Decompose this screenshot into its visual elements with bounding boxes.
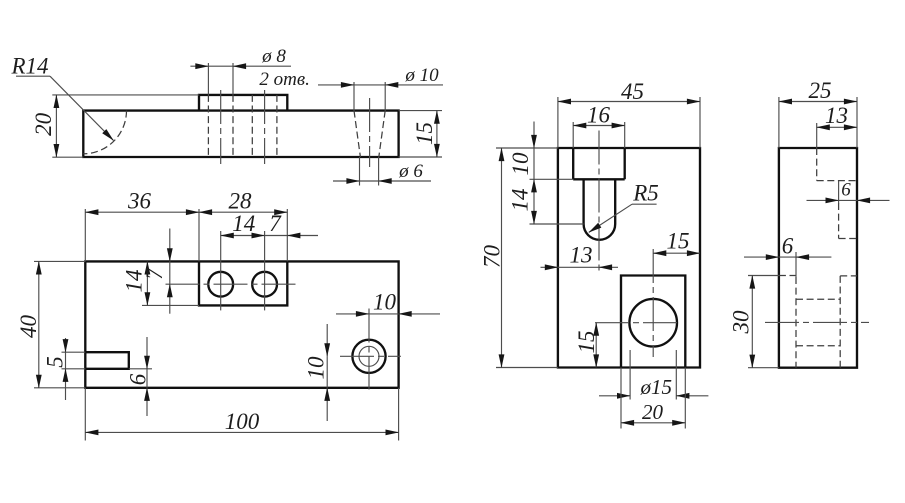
dimension 6 lower: extension line: [795, 252, 797, 277]
dimension 6 upper: lines and arrows: [807, 199, 839, 201]
dimension 13: middle segment: [558, 266, 599, 268]
dimension 70: dimension line: [501, 148, 503, 368]
dimension 15: dimension line: [436, 111, 438, 157]
part 2 front view: slot: [573, 148, 625, 224]
dimension 20: dimension line: [621, 422, 685, 424]
hidden lines: hole Ø15 top: [796, 298, 840, 300]
R14 leader: [16, 75, 50, 77]
part 1 side view: boss outline: [199, 95, 287, 111]
countersunk hole inner circle Ø6: [359, 346, 379, 366]
hidden lines: hole Ø15 bottom: [796, 345, 840, 347]
dimension 36: dimension line: [85, 211, 199, 213]
centerline hole 2 vertical: [264, 231, 266, 310]
part 2 front view: block outline: [558, 148, 700, 368]
dimension 20: dimension line: [55, 95, 57, 157]
centerline hole horizontal: [595, 322, 681, 324]
svg-text:14: 14: [508, 189, 533, 212]
svg-text:R5: R5: [632, 181, 659, 206]
svg-text:7: 7: [142, 267, 167, 280]
centerline countersunk hole: [369, 98, 371, 167]
dimension 100: dimension line: [85, 431, 398, 433]
dimension 40: extension lines: [34, 261, 85, 387]
hidden lines: boss top edges: [779, 275, 857, 277]
svg-text:36: 36: [127, 189, 152, 214]
svg-text:15: 15: [574, 331, 599, 354]
dimension 6 lower: lines and arrows: [744, 256, 779, 258]
dimension Ø8: extension lines: [208, 63, 233, 95]
svg-text:ø 6: ø 6: [398, 161, 423, 182]
dimension Ø8: arrow tails: [190, 65, 208, 67]
hole 2 circle Ø8: [252, 272, 277, 297]
svg-text:15: 15: [667, 229, 690, 254]
dimension 6: extension line: [129, 368, 152, 370]
dimension Ø10: arrow tails: [318, 84, 354, 86]
dimension Ø6: extension lines: [360, 157, 379, 186]
svg-text:ø 8: ø 8: [261, 46, 286, 67]
dimension 10 horizontal: middle segment: [369, 313, 399, 315]
dimension 14 horizontal: dimension line: [221, 235, 265, 237]
dimension 6 upper: extension line: [838, 181, 840, 204]
dimension 45: dimension line: [558, 101, 700, 103]
R14 hidden arc: [83, 111, 126, 154]
centerline countersunk horizontal: [340, 355, 401, 357]
hidden lines: slot upper: [817, 148, 857, 181]
svg-text:13: 13: [825, 103, 848, 128]
svg-text:40: 40: [16, 315, 41, 339]
dimension 28: dimension line: [199, 211, 287, 213]
dimension 15: extension lines: [399, 111, 442, 157]
R5 leader: [632, 203, 657, 205]
dimension 14 vertical: dimension line: [533, 179, 535, 224]
svg-text:10: 10: [508, 152, 533, 176]
dimension 7 horizontal: line and tail: [265, 235, 288, 237]
dimension 16: extension lines: [573, 122, 625, 148]
dimension Ø6: arrow tails: [333, 180, 360, 182]
svg-text:25: 25: [809, 78, 832, 103]
centerline hole vertical: [652, 249, 654, 357]
dimension Ø15: arrow tails: [599, 395, 630, 397]
dimension 10 vertical: middle segment: [533, 148, 535, 179]
part 2 front view: slot arc R5: [584, 224, 616, 240]
centerline countersunk vertical: [368, 309, 370, 390]
svg-text:28: 28: [229, 189, 253, 214]
dimension Ø15: extension lines: [630, 350, 676, 400]
centerline hole 1 vertical: [220, 231, 222, 310]
dimension 36/28: extension lines: [85, 209, 287, 261]
dimension 7 vertical: middle segment: [169, 261, 171, 284]
dimension 13: extension line: [816, 123, 818, 148]
hidden lines: countersunk hole Ø10/Ø6: [354, 111, 385, 157]
svg-text:30: 30: [729, 310, 754, 335]
dimension 45: extension lines: [558, 97, 700, 148]
svg-text:2 отв.: 2 отв.: [259, 69, 309, 90]
centerline holes horizontal: [166, 283, 297, 285]
dimension 25: dimension line: [779, 101, 857, 103]
svg-text:7: 7: [269, 211, 282, 236]
dimension 14 vertical: extension line: [142, 304, 199, 306]
part 1 plan view: notch: [85, 352, 129, 369]
svg-text:45: 45: [621, 79, 644, 104]
svg-text:ø15: ø15: [640, 375, 673, 399]
dimension 7 vertical: arrow tails: [169, 229, 171, 262]
svg-text:10: 10: [304, 356, 329, 380]
part 2 front view: boss: [621, 276, 685, 368]
dimension 6: middle segment: [146, 369, 148, 388]
dimension 5: arrow tails: [65, 338, 67, 352]
centerline slot vertical: [598, 131, 600, 272]
svg-text:6: 6: [841, 180, 851, 201]
centerline hole 2: [264, 90, 266, 164]
dimension 30: dimension line: [751, 276, 753, 368]
svg-text:R14: R14: [10, 54, 48, 79]
dimension 15 horizontal: dimension line: [653, 252, 700, 254]
svg-text:10: 10: [373, 290, 397, 315]
svg-text:16: 16: [587, 103, 611, 128]
dimension 6: arrow tails: [146, 337, 148, 369]
dimension 13: dimension line: [817, 126, 857, 128]
part 1 side view: plate outline: [83, 111, 398, 157]
dimension 10 vertical: middle segment: [326, 356, 328, 388]
svg-text:ø 10: ø 10: [404, 65, 439, 86]
svg-text:6: 6: [126, 373, 151, 385]
dimension 20: extension lines: [52, 95, 199, 157]
svg-text:6: 6: [782, 234, 794, 259]
dimension 15 vertical: arrow tails: [595, 323, 597, 368]
hole 1 circle Ø8: [208, 272, 233, 297]
svg-text:14: 14: [232, 211, 255, 236]
hidden lines: boss rear face: [795, 277, 797, 368]
dimension 14 vertical: dimension line: [146, 261, 148, 305]
left extension lines of part 2: [496, 148, 584, 368]
dimension 6 lower: middle segment: [779, 256, 796, 258]
dimension 40: dimension line: [38, 261, 40, 387]
hidden lines: hole 2 (Ø8): [252, 95, 277, 157]
svg-text:20: 20: [642, 400, 664, 424]
dimension 13: arrow tails: [541, 266, 558, 268]
centerline hole 1: [220, 90, 222, 164]
dimension 5: middle segment: [65, 352, 67, 369]
hidden lines: boss front face: [839, 276, 841, 368]
hidden lines: hole 1 (Ø8): [208, 95, 233, 157]
dimension 10 vertical: arrow tail: [533, 122, 535, 149]
dimension 5: extension lines: [62, 352, 86, 369]
dimension Ø10: extension lines: [354, 82, 385, 111]
part 2 front view: hole circle Ø15: [629, 299, 677, 347]
dimension 10 vertical: arrow tails: [326, 324, 328, 356]
hidden lines: slot lower R5: [839, 203, 857, 239]
svg-text:20: 20: [31, 112, 56, 135]
countersunk hole outer circle Ø10: [352, 340, 385, 373]
dimension 10 horizontal: arrow tails: [336, 313, 369, 315]
centerline hole axis: [765, 321, 869, 323]
dimension Ø8: middle segment: [208, 65, 233, 67]
dimension 30: extension lines: [748, 276, 779, 368]
svg-text:5: 5: [43, 356, 68, 368]
svg-text:15: 15: [412, 122, 437, 145]
part 1 plan view: plate outline: [85, 261, 398, 387]
dimension Ø10: middle segment: [354, 84, 385, 86]
dimension 100: extension lines: [85, 388, 398, 441]
svg-text:70: 70: [480, 245, 505, 269]
dimension 16: dimension line: [573, 125, 625, 127]
svg-text:13: 13: [570, 243, 593, 268]
part 1 plan view: boss outline: [199, 261, 287, 305]
dimension Ø6: middle segment: [360, 180, 379, 182]
part 2 side view: block outline: [779, 148, 857, 368]
dimension 20: extension lines: [621, 368, 685, 429]
svg-text:100: 100: [225, 409, 260, 434]
dimension 25: extension lines: [779, 97, 857, 148]
